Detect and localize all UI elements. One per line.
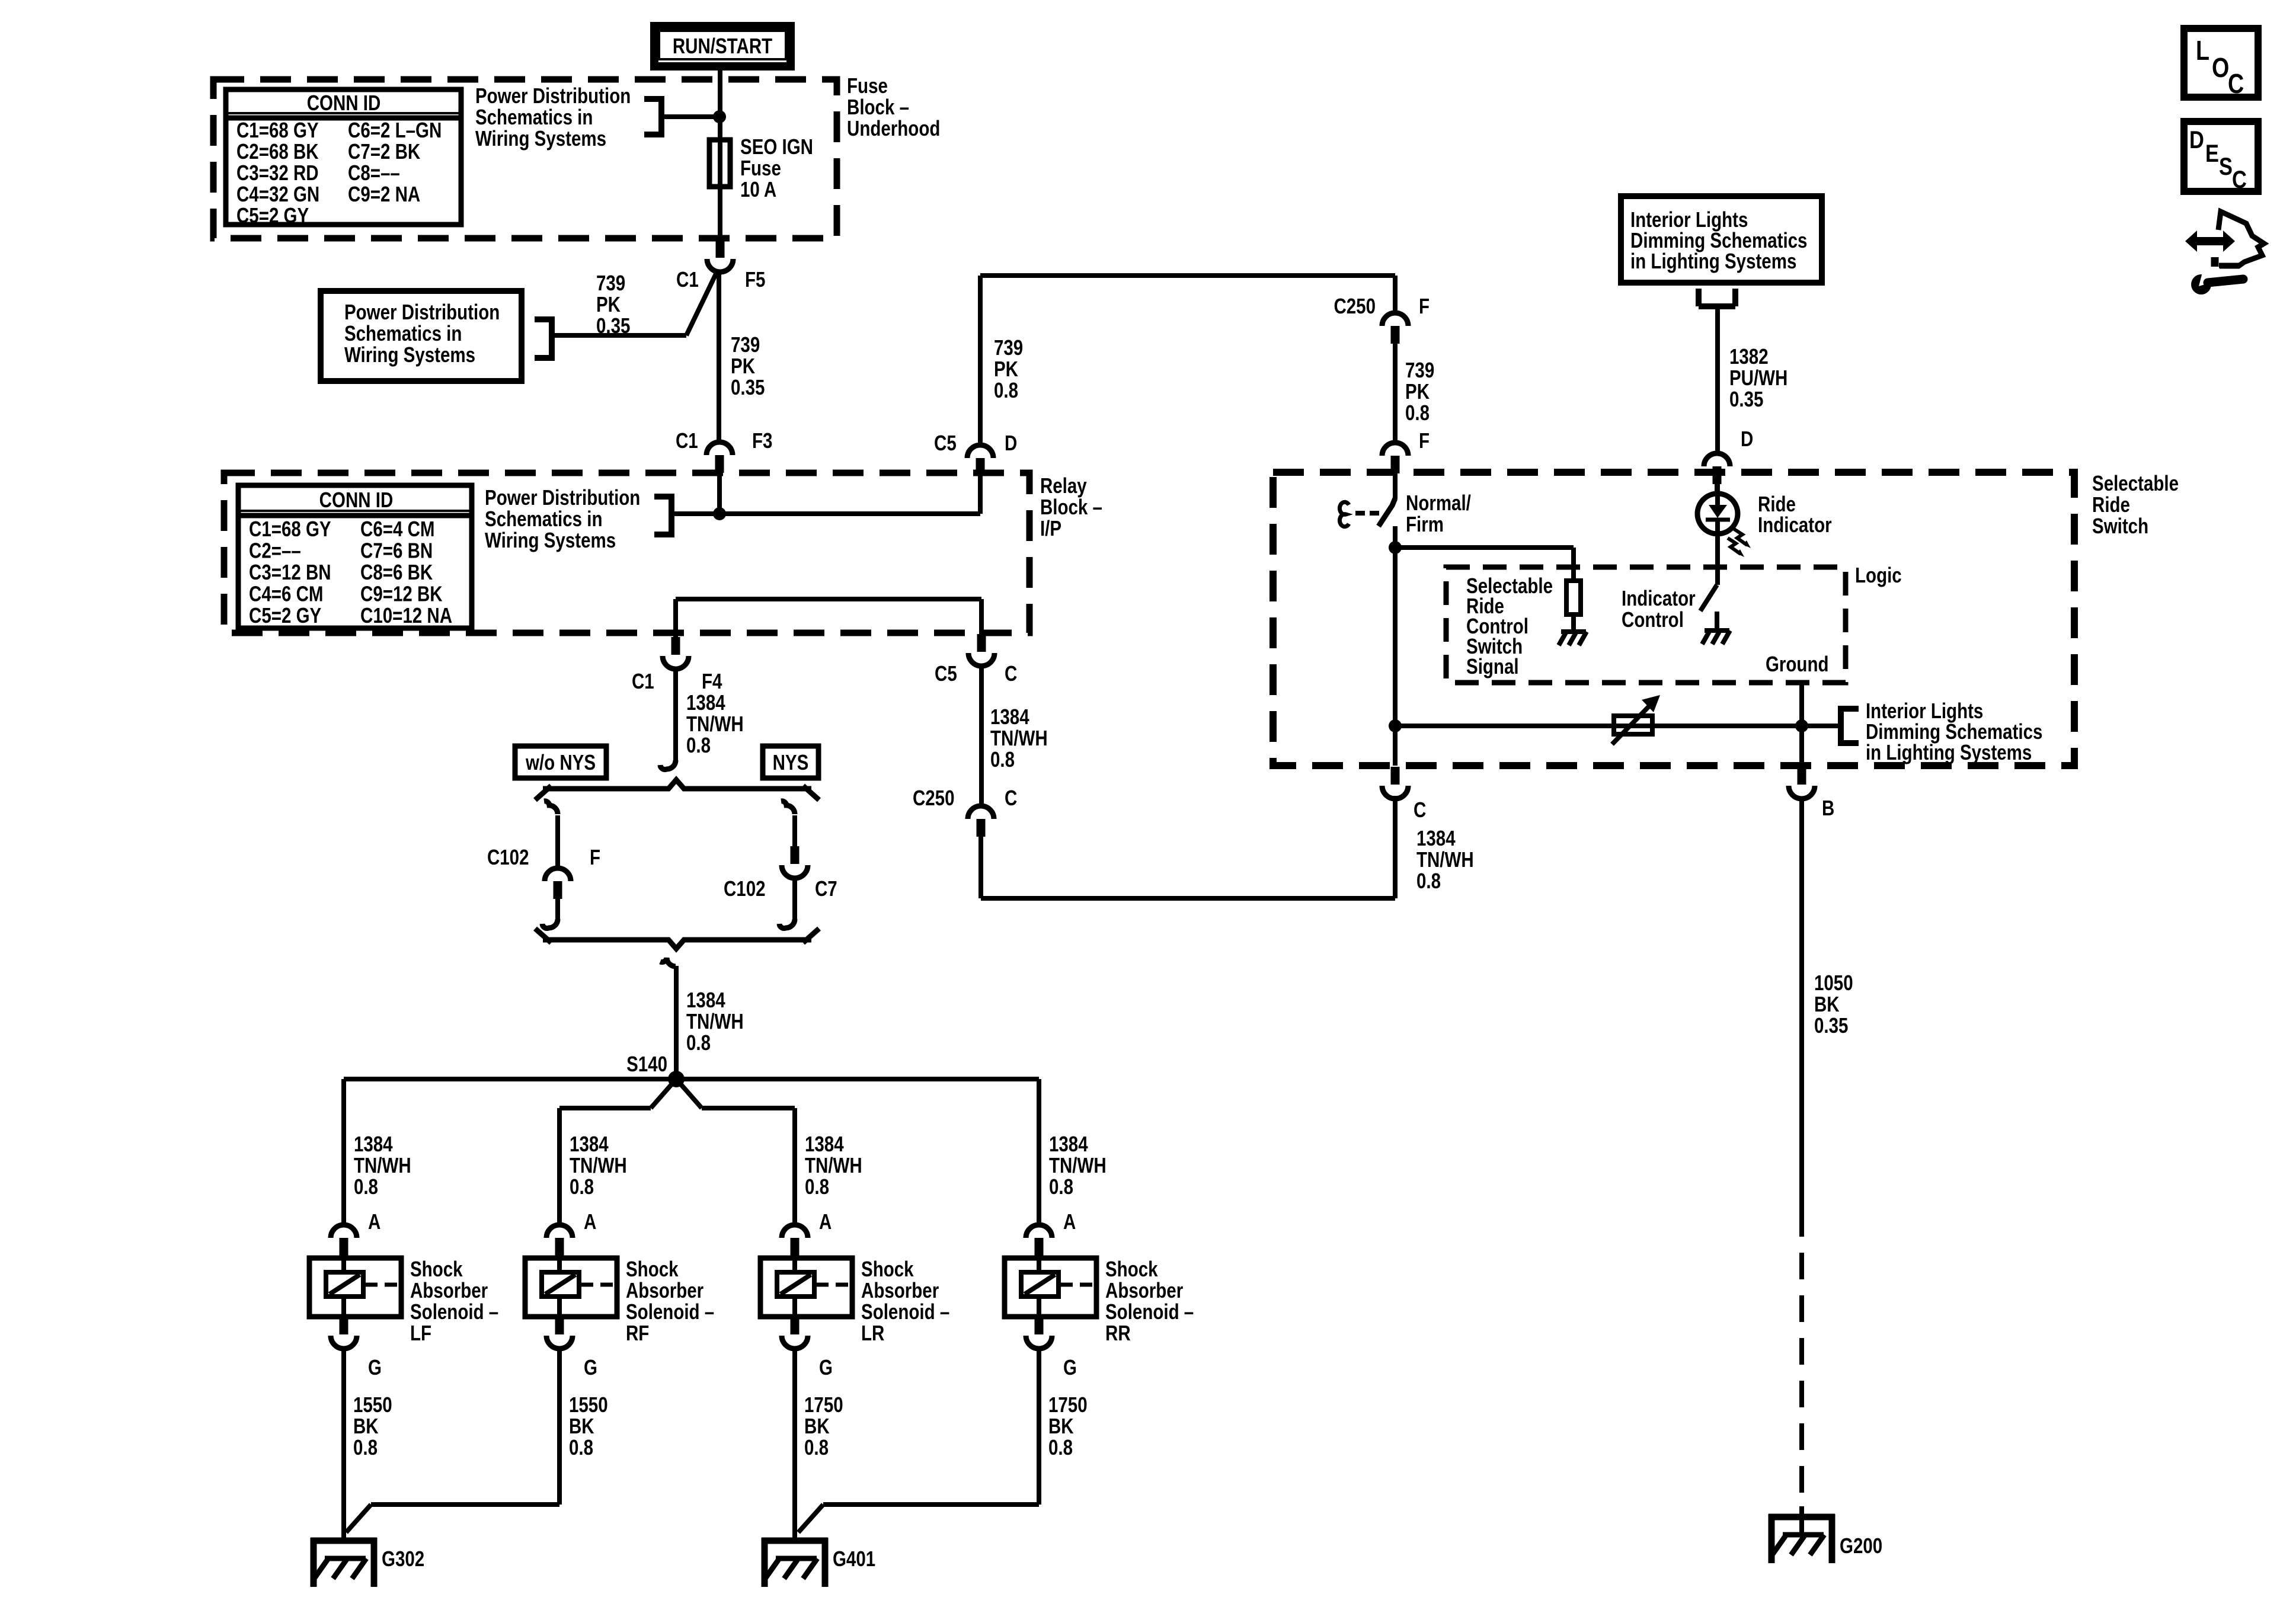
- svg-text:0.35: 0.35: [1729, 387, 1763, 411]
- svg-text:G200: G200: [1840, 1534, 1882, 1557]
- svg-text:10 A: 10 A: [740, 177, 776, 201]
- svg-text:0.35: 0.35: [596, 313, 630, 337]
- svg-text:Underhood: Underhood: [847, 116, 940, 140]
- svg-text:G302: G302: [382, 1547, 424, 1570]
- svg-text:F: F: [590, 845, 600, 869]
- svg-text:BK: BK: [804, 1414, 830, 1438]
- svg-text:C2=68 BK: C2=68 BK: [236, 139, 319, 163]
- svg-text:1750: 1750: [804, 1393, 843, 1416]
- svg-text:in Lighting Systems: in Lighting Systems: [1866, 740, 2032, 764]
- svg-text:C7: C7: [815, 876, 837, 900]
- svg-text:0.8: 0.8: [1048, 1435, 1073, 1459]
- svg-text:C6=4 CM: C6=4 CM: [360, 517, 434, 540]
- svg-text:D: D: [1005, 431, 1017, 454]
- svg-text:Indicator: Indicator: [1622, 586, 1696, 610]
- svg-text:C8=––: C8=––: [348, 161, 400, 184]
- svg-text:Shock: Shock: [410, 1257, 463, 1281]
- svg-text:1550: 1550: [569, 1393, 608, 1416]
- svg-text:C8=6 BK: C8=6 BK: [360, 560, 433, 584]
- svg-text:0.8: 0.8: [1049, 1174, 1073, 1198]
- svg-text:A: A: [819, 1209, 832, 1233]
- svg-text:Schematics in: Schematics in: [475, 105, 593, 129]
- svg-text:C250: C250: [1334, 294, 1376, 318]
- svg-text:Indicator: Indicator: [1758, 513, 1832, 536]
- svg-text:Firm: Firm: [1406, 512, 1444, 536]
- svg-text:C2=––: C2=––: [249, 539, 301, 562]
- svg-text:Fuse: Fuse: [740, 156, 781, 180]
- svg-text:1382: 1382: [1729, 344, 1769, 368]
- svg-text:Power Distribution: Power Distribution: [344, 300, 500, 324]
- svg-text:0.8: 0.8: [354, 1174, 378, 1198]
- svg-text:C1=68 GY: C1=68 GY: [249, 517, 331, 540]
- svg-text:1750: 1750: [1048, 1393, 1088, 1416]
- svg-text:BK: BK: [353, 1414, 379, 1438]
- svg-text:Logic: Logic: [1855, 563, 1902, 587]
- svg-text:C102: C102: [487, 845, 529, 869]
- svg-text:739: 739: [1405, 358, 1434, 382]
- svg-text:PK: PK: [596, 292, 621, 316]
- svg-text:1384: 1384: [686, 988, 725, 1012]
- svg-text:0.8: 0.8: [686, 1030, 711, 1054]
- svg-text:Wiring Systems: Wiring Systems: [475, 126, 606, 150]
- svg-text:C: C: [2228, 68, 2244, 98]
- svg-text:Absorber: Absorber: [861, 1278, 939, 1302]
- svg-text:C10=12 NA: C10=12 NA: [360, 603, 452, 627]
- svg-text:Solenoid –: Solenoid –: [1105, 1299, 1194, 1323]
- svg-text:1384: 1384: [1416, 826, 1456, 850]
- svg-text:1384: 1384: [686, 690, 725, 714]
- svg-text:in Lighting Systems: in Lighting Systems: [1630, 249, 1796, 273]
- svg-text:E: E: [2205, 140, 2219, 168]
- svg-text:Block –: Block –: [847, 95, 909, 119]
- svg-text:0.8: 0.8: [570, 1174, 594, 1198]
- svg-text:TN/WH: TN/WH: [805, 1153, 862, 1177]
- svg-text:C3=32 RD: C3=32 RD: [236, 161, 319, 184]
- svg-text:C5: C5: [934, 431, 957, 454]
- svg-text:Schematics in: Schematics in: [344, 321, 462, 345]
- svg-text:PK: PK: [731, 354, 755, 377]
- svg-text:O: O: [2212, 52, 2229, 82]
- svg-text:Solenoid –: Solenoid –: [410, 1299, 498, 1323]
- svg-text:Absorber: Absorber: [626, 1278, 703, 1302]
- svg-text:739: 739: [994, 335, 1023, 359]
- svg-text:Power Distribution: Power Distribution: [475, 84, 631, 107]
- svg-text:C5: C5: [935, 661, 957, 685]
- svg-text:BK: BK: [1814, 992, 1840, 1016]
- svg-text:RUN/START: RUN/START: [673, 34, 772, 57]
- svg-text:0.8: 0.8: [353, 1435, 378, 1459]
- svg-text:0.8: 0.8: [686, 733, 711, 757]
- svg-text:G: G: [1063, 1355, 1077, 1379]
- svg-text:B: B: [1822, 796, 1834, 820]
- svg-text:1050: 1050: [1814, 971, 1853, 994]
- svg-text:A: A: [584, 1209, 596, 1233]
- svg-text:TN/WH: TN/WH: [990, 726, 1048, 750]
- svg-text:0.8: 0.8: [990, 747, 1015, 771]
- svg-text:PK: PK: [1405, 379, 1430, 403]
- svg-text:1384: 1384: [570, 1132, 609, 1156]
- svg-text:BK: BK: [1048, 1414, 1074, 1438]
- svg-text:Normal/: Normal/: [1406, 491, 1471, 514]
- svg-text:C: C: [1414, 798, 1426, 821]
- svg-text:C250: C250: [913, 786, 955, 809]
- svg-text:G: G: [819, 1355, 833, 1379]
- svg-text:TN/WH: TN/WH: [1049, 1153, 1107, 1177]
- svg-text:Schematics in: Schematics in: [485, 507, 602, 530]
- svg-text:F: F: [1419, 428, 1430, 452]
- svg-text:Ground: Ground: [1766, 652, 1829, 676]
- svg-text:C9=12 BK: C9=12 BK: [360, 582, 443, 606]
- svg-text:C9=2 NA: C9=2 NA: [348, 182, 420, 206]
- svg-text:D: D: [2189, 126, 2204, 154]
- svg-text:SEO IGN: SEO IGN: [740, 135, 813, 158]
- svg-text:Fuse: Fuse: [847, 73, 888, 97]
- svg-text:S: S: [2219, 153, 2233, 181]
- svg-text:0.35: 0.35: [1814, 1013, 1848, 1037]
- svg-text:TN/WH: TN/WH: [686, 1009, 744, 1033]
- svg-text:G: G: [368, 1355, 382, 1379]
- svg-text:LR: LR: [861, 1321, 885, 1345]
- svg-text:1384: 1384: [1049, 1132, 1088, 1156]
- svg-text:S140: S140: [626, 1052, 667, 1076]
- svg-text:F: F: [1419, 294, 1430, 318]
- svg-text:Ride: Ride: [2092, 492, 2130, 516]
- svg-text:A: A: [1063, 1209, 1076, 1233]
- svg-text:C1: C1: [632, 669, 654, 693]
- svg-text:F5: F5: [745, 267, 765, 291]
- svg-text:L: L: [2196, 35, 2209, 65]
- svg-text:739: 739: [596, 271, 625, 295]
- svg-text:TN/WH: TN/WH: [570, 1153, 627, 1177]
- svg-text:G: G: [584, 1355, 597, 1379]
- svg-text:RR: RR: [1105, 1321, 1131, 1345]
- svg-text:Selectable: Selectable: [2092, 471, 2179, 495]
- svg-text:Solenoid –: Solenoid –: [626, 1299, 714, 1323]
- svg-text:G401: G401: [833, 1547, 875, 1570]
- svg-text:PU/WH: PU/WH: [1729, 366, 1787, 389]
- svg-text:0.8: 0.8: [805, 1174, 829, 1198]
- svg-text:LF: LF: [410, 1321, 431, 1345]
- svg-text:C5=2 GY: C5=2 GY: [236, 203, 309, 227]
- svg-text:C1=68 GY: C1=68 GY: [236, 118, 319, 142]
- svg-text:I/P: I/P: [1040, 516, 1061, 540]
- svg-text:C3=12 BN: C3=12 BN: [249, 560, 331, 584]
- svg-text:RF: RF: [626, 1321, 649, 1345]
- svg-text:D: D: [1741, 427, 1753, 450]
- svg-text:C4=6 CM: C4=6 CM: [249, 582, 323, 606]
- svg-text:Shock: Shock: [861, 1257, 914, 1281]
- svg-text:C: C: [2232, 166, 2247, 194]
- svg-text:C: C: [1005, 661, 1017, 685]
- svg-text:Absorber: Absorber: [410, 1278, 488, 1302]
- svg-text:Wiring Systems: Wiring Systems: [485, 528, 616, 552]
- svg-text:Signal: Signal: [1466, 654, 1519, 678]
- svg-text:Switch: Switch: [2092, 514, 2148, 537]
- svg-text:C4=32 GN: C4=32 GN: [236, 182, 319, 206]
- svg-text:Solenoid –: Solenoid –: [861, 1299, 949, 1323]
- svg-text:C1: C1: [676, 267, 699, 291]
- svg-text:C1: C1: [676, 428, 698, 452]
- svg-text:1384: 1384: [990, 705, 1029, 728]
- svg-text:PK: PK: [994, 357, 1018, 380]
- svg-text:1384: 1384: [354, 1132, 393, 1156]
- svg-text:0.8: 0.8: [994, 378, 1018, 402]
- svg-text:0.8: 0.8: [804, 1435, 829, 1459]
- svg-text:Control: Control: [1622, 607, 1684, 631]
- svg-text:C5=2 GY: C5=2 GY: [249, 603, 321, 627]
- svg-text:CONN ID: CONN ID: [307, 91, 381, 114]
- svg-text:NYS: NYS: [773, 750, 809, 774]
- svg-text:Wiring Systems: Wiring Systems: [344, 343, 475, 366]
- svg-text:BK: BK: [569, 1414, 594, 1438]
- svg-text:F3: F3: [752, 428, 772, 452]
- svg-text:C7=2 BK: C7=2 BK: [348, 139, 420, 163]
- svg-text:w/o NYS: w/o NYS: [525, 750, 596, 774]
- svg-text:C6=2 L–GN: C6=2 L–GN: [348, 118, 442, 142]
- svg-text:739: 739: [731, 332, 760, 356]
- svg-text:TN/WH: TN/WH: [1416, 847, 1474, 871]
- svg-text:Power Distribution: Power Distribution: [485, 485, 640, 509]
- svg-text:F4: F4: [702, 669, 722, 693]
- svg-text:0.8: 0.8: [569, 1435, 593, 1459]
- svg-text:C102: C102: [724, 876, 766, 900]
- svg-text:Block –: Block –: [1040, 495, 1102, 518]
- svg-text:A: A: [368, 1209, 380, 1233]
- svg-text:C7=6 BN: C7=6 BN: [360, 539, 433, 562]
- svg-text:0.8: 0.8: [1405, 401, 1430, 424]
- svg-text:1550: 1550: [353, 1393, 392, 1416]
- svg-text:Absorber: Absorber: [1105, 1278, 1183, 1302]
- svg-text:Shock: Shock: [1105, 1257, 1158, 1281]
- svg-text:1384: 1384: [805, 1132, 844, 1156]
- svg-text:CONN ID: CONN ID: [319, 488, 394, 511]
- svg-text:TN/WH: TN/WH: [354, 1153, 411, 1177]
- svg-text:Shock: Shock: [626, 1257, 679, 1281]
- svg-text:C: C: [1005, 786, 1017, 809]
- svg-text:Relay: Relay: [1040, 473, 1087, 497]
- svg-text:0.35: 0.35: [731, 375, 765, 399]
- svg-text:TN/WH: TN/WH: [686, 712, 744, 735]
- svg-text:0.8: 0.8: [1416, 869, 1441, 892]
